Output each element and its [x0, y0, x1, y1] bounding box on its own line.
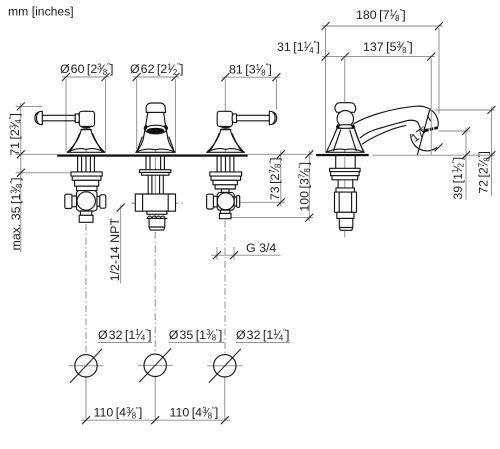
ticks 81 [221, 73, 280, 81]
ticks 180 [322, 22, 443, 30]
ticks 100 [305, 150, 313, 221]
left handle lever bar [42, 115, 75, 121]
centre aerator inner [147, 128, 165, 134]
dim line 72 vertical [490, 107, 492, 196]
left valve flange [71, 172, 102, 176]
svg-text:71 [23⁄4"]: 71 [23⁄4"] [8, 113, 23, 156]
right handle waist [220, 126, 231, 129]
right valve ball [217, 192, 234, 210]
left handle hub [79, 111, 94, 126]
ext line 73 bottom [240, 201, 285, 203]
arc 17 degrees [411, 134, 437, 150]
deck side [316, 154, 369, 156]
dim line 180 [322, 25, 443, 27]
right handle lever bar [237, 115, 270, 121]
ext lines diameter 60 [66, 79, 106, 152]
middle adapter [149, 218, 165, 230]
side finial cap [335, 103, 356, 113]
hole circle 2 [144, 354, 166, 376]
side tube [338, 180, 353, 188]
leader line NPT [120, 205, 122, 283]
ext line 137 axis [344, 59, 346, 102]
side spout body fill [354, 106, 438, 138]
dim line diameter 62 [133, 76, 179, 78]
ticks G 3/4 [213, 251, 238, 259]
dim line G 3/4 [211, 254, 281, 256]
side adapter [339, 218, 353, 230]
right handle collar [232, 114, 236, 123]
middle bar [147, 211, 167, 214]
right valve nut [219, 213, 231, 218]
deck ext line far left [16, 153, 58, 155]
vertical ref line 17 degrees [430, 106, 432, 155]
side hex block [335, 192, 357, 212]
deck ext line mid right [248, 153, 313, 155]
tick NPT [117, 204, 125, 212]
ticks d62 [133, 73, 180, 81]
ticks 31 137 [322, 53, 436, 61]
left valve stem [78, 157, 95, 172]
right valve outlet right [234, 197, 237, 206]
hole circle 1 [75, 355, 97, 377]
middle washer bumps [147, 216, 167, 218]
dim line 39 vertical [465, 128, 467, 200]
middle tube [148, 175, 163, 194]
centre fixture cap [146, 103, 166, 112]
ticks 110 [82, 416, 229, 424]
ticks 39 [462, 127, 470, 159]
dim line 81 [222, 76, 281, 78]
side spout top edge [354, 106, 438, 126]
ext line 180 right [438, 28, 440, 114]
deck front [57, 154, 248, 156]
svg-text:G 3/4: G 3/4 [246, 241, 276, 255]
middle flange [140, 170, 171, 173]
underline label hole 2 [169, 341, 224, 343]
tick 17 deg [435, 143, 443, 151]
ticks 73 [277, 150, 285, 206]
ext line 137 right [430, 59, 432, 107]
left handle waist [81, 126, 92, 129]
centerline right hole [224, 221, 226, 355]
ext stubs G 3/4 [217, 247, 234, 260]
left valve step [77, 186, 98, 190]
svg-text:max. 35 [13⁄8"]: max. 35 [13⁄8"] [9, 177, 24, 250]
deck ext line right side [373, 154, 495, 156]
right valve step [215, 185, 235, 189]
leader 17 degrees [418, 111, 430, 155]
svg-text:31 [11⁄4"]: 31 [11⁄4"] [277, 40, 320, 55]
side shank [336, 156, 356, 168]
right valve flange [210, 172, 242, 176]
right valve notch [222, 189, 230, 192]
ticks d60 [62, 73, 110, 81]
centerline middle hole [154, 232, 156, 354]
side aerator band [424, 126, 438, 132]
centerline middle hex horizontal [131, 202, 184, 204]
left handle knob [35, 111, 42, 125]
ext line 100 bottom [231, 217, 313, 219]
middle shank [146, 157, 164, 170]
side spout chin [418, 122, 425, 132]
centerlines dash-dot [86, 203, 345, 354]
dim line 100 vertical [308, 151, 310, 221]
hole circle 3 [214, 355, 236, 377]
left bell hem [67, 134, 105, 153]
leader diagonal hole 2 [139, 348, 171, 382]
ext line aerator (39) [439, 130, 470, 132]
right valve stem [217, 157, 234, 172]
ext lines 81 [225, 79, 276, 152]
ext verticals circles to dim [86, 377, 225, 421]
side collar [332, 176, 358, 180]
side nut [337, 212, 354, 218]
ext line spout top (72) [435, 109, 495, 111]
svg-text:mm [inches]: mm [inches] [8, 4, 74, 18]
side waist band [337, 125, 355, 129]
ext line 180 left [325, 28, 327, 153]
side bell hem [326, 130, 364, 152]
svg-text:39 [11⁄2"]: 39 [11⁄2"] [451, 157, 466, 200]
axis centre fixture [154, 105, 156, 232]
centre aerator side knots [143, 124, 148, 130]
dim line 71 and max35 vertical [20, 103, 22, 252]
centerline left hole [85, 224, 87, 355]
centre aerator outer [145, 125, 166, 134]
dim line 31 / 137 [322, 56, 435, 58]
left valve outlet left [72, 196, 77, 207]
side bell edge restroke [355, 129, 364, 153]
right handle bell [207, 130, 245, 153]
left valve outlet right [97, 196, 100, 206]
right bell hem [207, 134, 245, 153]
ticks 72 [487, 106, 495, 159]
left handle bell [67, 130, 105, 153]
ext line max 35 [16, 172, 71, 174]
underline label hole 1 [98, 341, 152, 343]
left handle collar [75, 114, 79, 123]
axis right handle [225, 157, 227, 220]
ext lines diameter 62 [137, 79, 176, 152]
side knob ball [337, 111, 353, 127]
centre fixture cone [136, 112, 175, 152]
svg-text:72 [27⁄8"]: 72 [27⁄8"] [477, 151, 492, 194]
side step [336, 188, 354, 192]
svg-text:81 [31⁄8"]: 81 [31⁄8"] [229, 63, 272, 78]
leader diagonal hole 1 [70, 349, 102, 383]
ticks 71 max35 [17, 102, 25, 176]
centre bell hem [136, 137, 175, 152]
side flange [330, 168, 361, 171]
leader diagonal hole 3 [209, 349, 241, 383]
side spout underside [360, 120, 417, 138]
right handle knob [269, 111, 276, 125]
middle hex coupler [135, 194, 175, 211]
left valve body [75, 180, 99, 186]
svg-text:1/2-14 NPT: 1/2-14 NPT [108, 218, 122, 282]
circle horizontal centerlines [69, 364, 243, 367]
side bell [326, 128, 364, 152]
right valve body [213, 180, 237, 185]
left valve nut [79, 215, 93, 222]
svg-text:73 [27⁄8"]: 73 [27⁄8"] [268, 157, 283, 200]
right valve neck [220, 210, 230, 213]
underline label hole 3 [236, 341, 290, 343]
nose highlight dash [428, 116, 431, 121]
right handle hub [217, 111, 232, 126]
axis left handle [85, 110, 87, 223]
centerline side shank [344, 232, 346, 238]
dim line 73 vertical [280, 151, 282, 206]
dim line 110+110 [81, 419, 230, 421]
ext line lever top left [16, 105, 43, 107]
dim line diameter 60 [62, 76, 110, 78]
right valve outlet left G34 [213, 196, 217, 207]
left valve neck [80, 211, 91, 215]
side spout throat inner line [363, 125, 406, 144]
left valve ball [77, 191, 98, 211]
axis side view [344, 101, 346, 232]
